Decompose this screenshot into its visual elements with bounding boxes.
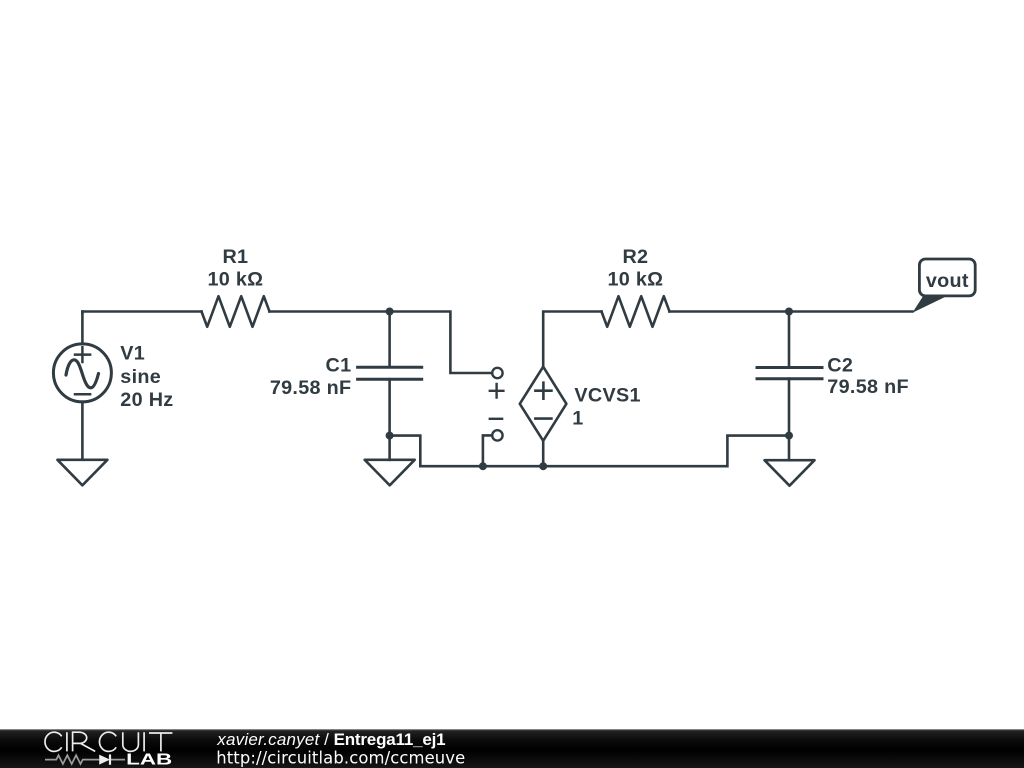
svg-text:79.58 nF: 79.58 nF xyxy=(270,377,352,399)
svg-text:79.58 nF: 79.58 nF xyxy=(827,376,909,398)
bottom rail xyxy=(483,436,789,467)
VCVS plus input terminal xyxy=(492,368,502,378)
ground under V1 xyxy=(57,460,107,486)
junction dot node A xyxy=(386,308,394,316)
svg-text:10 kΩ: 10 kΩ xyxy=(207,269,263,291)
wire R2 to vout xyxy=(670,310,913,313)
junction dot C2 bottom xyxy=(785,432,793,440)
svg-text:1: 1 xyxy=(572,407,583,429)
terminal plus sign xyxy=(490,384,504,398)
svg-text:V1: V1 xyxy=(120,343,145,365)
V1 plus sign xyxy=(75,347,90,362)
VCVS1 minus sign xyxy=(535,417,551,420)
svg-text:C1: C1 xyxy=(326,355,352,377)
svg-text:sine: sine xyxy=(120,366,161,388)
wire node to VCVS plus terminal xyxy=(390,312,492,374)
bar top edge highlight xyxy=(0,729,1024,730)
wire R1 to node xyxy=(270,310,390,313)
ground under C2 xyxy=(765,460,815,486)
svg-text:VCVS1: VCVS1 xyxy=(574,385,640,407)
wire node to C2 xyxy=(788,312,791,368)
resistor R2 xyxy=(602,296,670,327)
voltage source V1 xyxy=(53,344,111,402)
svg-text:10 kΩ: 10 kΩ xyxy=(607,269,663,291)
wire V1 top vertical xyxy=(81,312,84,345)
wire from V1 to R1 xyxy=(82,312,201,313)
svg-text:C2: C2 xyxy=(827,354,853,376)
junction dot C1 bottom xyxy=(386,432,394,440)
net flag vout xyxy=(912,296,946,313)
junction dot vout node xyxy=(785,308,793,316)
svg-text:LAB: LAB xyxy=(126,751,172,768)
resistor R1 xyxy=(202,296,270,327)
capacitor C2 xyxy=(757,368,822,379)
VCVS minus input terminal xyxy=(492,430,502,440)
logo resistor-diode glyph xyxy=(45,754,125,764)
wire node to C1 xyxy=(388,312,391,368)
dependent source VCVS1 xyxy=(520,367,567,441)
svg-text:R2: R2 xyxy=(622,246,648,268)
V1 minus sign xyxy=(75,393,90,396)
CircuitLab logo CIRCUIT xyxy=(45,732,172,751)
wire minus terminal to rail xyxy=(483,435,492,466)
capacitor C1 xyxy=(358,367,422,379)
junction dot rail left xyxy=(479,462,487,470)
wire C1 bottom xyxy=(388,379,391,460)
svg-text:xavier.canyet / Entrega11_ej1: xavier.canyet / Entrega11_ej1 xyxy=(216,730,445,749)
svg-text:vout: vout xyxy=(926,270,969,292)
junction dot VCVS bottom xyxy=(539,462,547,470)
wire V1 bottom xyxy=(81,402,84,460)
svg-text:20 Hz: 20 Hz xyxy=(120,389,173,411)
wire VCVS top to R2 xyxy=(543,312,601,367)
terminal minus sign xyxy=(490,418,502,420)
ground under C1 xyxy=(365,460,415,486)
svg-text:R1: R1 xyxy=(222,246,248,268)
wire VCVS bottom to rail xyxy=(542,441,545,466)
wire C2 bottom xyxy=(788,379,791,461)
V1 sine waveform xyxy=(66,360,99,388)
VCVS1 plus sign xyxy=(535,383,551,399)
wire C1 node to bottom rail xyxy=(390,436,483,467)
svg-text:http://circuitlab.com/ccmeuve: http://circuitlab.com/ccmeuve xyxy=(216,749,465,768)
